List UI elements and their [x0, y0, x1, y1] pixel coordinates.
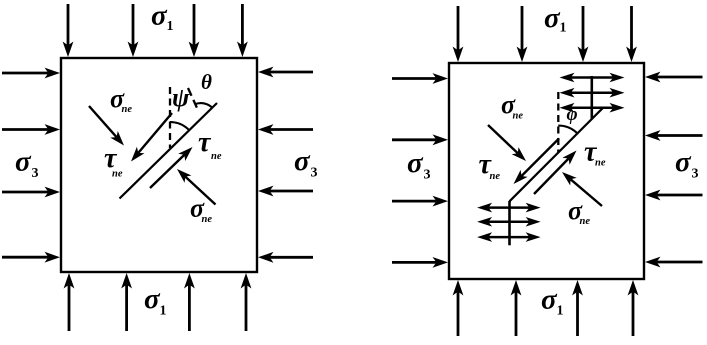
- label sigma1 bottom (left diagram): [144, 283, 167, 319]
- left dashed vertical psi reference: [169, 87, 171, 148]
- psi angle arc: [170, 122, 189, 130]
- right crack line: [510, 108, 604, 202]
- top wing tension arrows: [560, 73, 592, 83]
- theta angle arc: [195, 103, 213, 108]
- svg-text:3: 3: [32, 166, 39, 181]
- right top sigma1 arrows: [453, 6, 464, 62]
- bottom wing tension arrows: [477, 203, 509, 213]
- label tau_ne right (right diagram): [584, 137, 606, 169]
- label sigma3 right (right diagram): [675, 146, 699, 182]
- svg-text:σ: σ: [541, 284, 558, 316]
- svg-text:σ: σ: [15, 146, 32, 178]
- right sigma_ne arrow lower-right: [562, 172, 602, 206]
- right bottom sigma1 arrows: [453, 280, 464, 336]
- label sigma1 top (left diagram): [151, 0, 174, 34]
- left box right sigma3 arrows: [258, 67, 313, 78]
- svg-text:3: 3: [424, 168, 431, 183]
- label tau_ne left (right diagram): [479, 149, 501, 182]
- svg-text:σ: σ: [544, 2, 561, 34]
- label tau_ne right (left diagram): [198, 127, 222, 162]
- label sigma1 top (right diagram): [544, 2, 567, 36]
- left steep dashed theta reference: [188, 88, 198, 109]
- label tau_ne left (left diagram): [104, 143, 123, 180]
- svg-text:σ: σ: [294, 145, 311, 177]
- right box left sigma3 arrows: [392, 73, 448, 84]
- right tau_ne arrow lower face (up-right): [534, 151, 577, 195]
- label sigma_ne upper-left (left diagram): [110, 84, 132, 115]
- svg-text:ne: ne: [112, 169, 123, 180]
- top wing vertical line: [590, 76, 593, 120]
- svg-text:3: 3: [692, 167, 699, 182]
- sigma_ne arrow upper-left: [89, 106, 124, 146]
- svg-text:τ: τ: [198, 127, 212, 158]
- label sigma_ne upper-left (right diagram): [501, 90, 523, 122]
- svg-text:ne: ne: [211, 151, 222, 162]
- label sigma3 left (right diagram): [407, 147, 431, 183]
- svg-text:1: 1: [557, 304, 564, 319]
- svg-text:σ: σ: [675, 146, 692, 178]
- svg-text:ne: ne: [490, 171, 501, 182]
- label sigma1 bottom (right diagram): [541, 284, 564, 319]
- label sigma3 right (left diagram): [294, 145, 318, 181]
- right box right sigma3 arrows: [645, 72, 703, 83]
- svg-text:ψ: ψ: [172, 83, 190, 112]
- svg-text:1: 1: [160, 304, 167, 319]
- left bottom sigma1 arrows: [64, 273, 75, 331]
- bottom wing vertical line: [508, 201, 511, 245]
- svg-text:σ: σ: [144, 283, 161, 315]
- svg-text:ne: ne: [122, 104, 133, 115]
- phi angle arc: [558, 126, 577, 134]
- tau_ne arrow lower face (up-right): [150, 147, 193, 188]
- right specimen box: [449, 63, 644, 279]
- right tau_ne arrow upper face (down-left): [514, 139, 560, 185]
- left box left sigma3 arrows: [2, 68, 60, 79]
- svg-text:θ: θ: [201, 70, 212, 94]
- svg-text:ne: ne: [580, 216, 591, 227]
- left specimen box: [61, 58, 257, 272]
- svg-text:σ: σ: [407, 147, 424, 179]
- left top sigma1 arrows: [63, 4, 74, 57]
- svg-text:φ: φ: [567, 104, 578, 125]
- label sigma3 left (left diagram): [15, 146, 39, 182]
- right dashed vertical phi reference: [557, 92, 559, 152]
- label sigma_ne lower-right (right diagram): [568, 196, 590, 227]
- svg-text:ne: ne: [513, 111, 524, 122]
- svg-text:σ: σ: [151, 0, 168, 32]
- label sigma_ne lower-right (left diagram): [190, 194, 212, 226]
- svg-text:3: 3: [311, 166, 318, 181]
- sigma_ne arrow lower-right: [177, 169, 216, 205]
- tau_ne arrow upper face (down-left): [131, 113, 172, 162]
- svg-text:1: 1: [167, 19, 174, 34]
- svg-text:ne: ne: [595, 158, 606, 169]
- svg-text:ne: ne: [202, 214, 213, 225]
- svg-text:1: 1: [560, 21, 567, 36]
- right sigma_ne arrow upper-left: [488, 125, 526, 161]
- left crack line: [120, 103, 218, 199]
